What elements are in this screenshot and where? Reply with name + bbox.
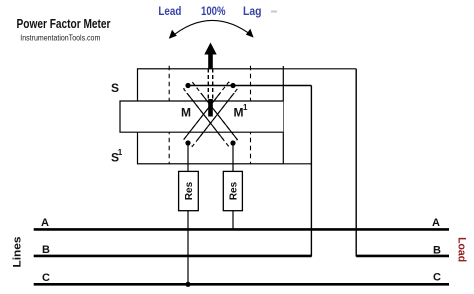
node dot M1 bottom	[230, 140, 235, 145]
moving coil M1 dashed outline	[184, 82, 238, 146]
svg-text:Res: Res	[228, 181, 239, 200]
dashed core line left	[168, 66, 170, 164]
line C	[34, 283, 449, 286]
svg-text:Power Factor Meter: Power Factor Meter	[17, 17, 111, 31]
moving coil M solid visible part	[184, 82, 238, 146]
svg-text:A: A	[432, 217, 440, 229]
svg-text:Res: Res	[184, 181, 195, 200]
wire box top to right	[283, 68, 356, 70]
svg-text:Lag: Lag	[243, 4, 262, 18]
moving coil M dashed outline	[184, 82, 238, 146]
svg-text:InstrumentationTools.com: InstrumentationTools.com	[20, 33, 100, 43]
junction dot on line C	[185, 282, 190, 287]
wire box bottom extension	[283, 163, 311, 165]
wire M bottom to resistor 1	[187, 143, 189, 171]
wire resistor 1 to line C	[187, 211, 189, 285]
node dot M1 top	[230, 83, 235, 88]
current coil bar	[120, 101, 283, 132]
svg-text:C: C	[42, 272, 50, 284]
svg-text:Lines: Lines	[12, 237, 24, 268]
svg-text:Load: Load	[456, 237, 468, 262]
wire down to line B left segment	[310, 86, 312, 257]
box right edge tick	[282, 66, 284, 69]
node dot M bottom	[185, 140, 190, 145]
line A	[34, 228, 449, 231]
resistor Res 1	[179, 171, 199, 210]
svg-text:M: M	[181, 105, 191, 119]
stationary coil outer box S	[138, 69, 284, 164]
line B right segment	[356, 255, 449, 258]
stray mark	[271, 11, 277, 13]
svg-text:A: A	[41, 217, 49, 229]
svg-text:100%: 100%	[201, 4, 226, 18]
svg-text:1: 1	[243, 103, 248, 112]
svg-text:Lead: Lead	[158, 4, 181, 18]
scale arc	[169, 20, 254, 38]
pointer needle	[204, 43, 216, 102]
svg-text:1: 1	[118, 148, 123, 157]
resistor Res 2	[223, 171, 242, 210]
svg-text:B: B	[433, 245, 441, 257]
wire down to line B right segment	[355, 69, 357, 257]
line B left segment	[34, 255, 312, 258]
wire resistor 2 to line A	[232, 211, 234, 230]
pointer needle lower shaft	[208, 99, 213, 117]
node dot M top	[185, 83, 190, 88]
svg-text:S: S	[111, 81, 119, 95]
svg-text:B: B	[42, 244, 50, 256]
wire M1 bottom to resistor 2	[232, 143, 234, 171]
dashed core line right	[250, 66, 252, 164]
svg-text:M: M	[234, 105, 244, 119]
svg-text:C: C	[433, 272, 441, 284]
wire top dots to right	[188, 85, 311, 87]
